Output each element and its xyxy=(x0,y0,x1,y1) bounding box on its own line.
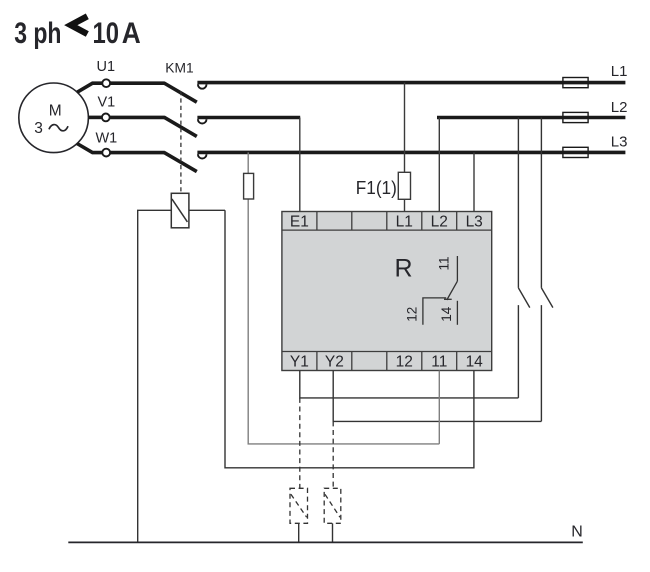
internal contact tip tick xyxy=(444,298,452,300)
svg-text:Y2: Y2 xyxy=(325,353,344,370)
terminal U1 xyxy=(102,79,110,87)
terminal W1 xyxy=(102,149,110,157)
line L2 supply segment xyxy=(437,116,625,120)
terminal V1 xyxy=(102,114,110,122)
contact hook L1 xyxy=(198,84,207,88)
svg-text:A: A xyxy=(122,17,141,50)
thermistor 1 xyxy=(290,488,308,523)
svg-text:L2: L2 xyxy=(611,99,628,116)
wire coil right pin xyxy=(189,209,225,211)
wire Y2 dashed to thermistor 2 xyxy=(332,421,334,488)
line L2 motor segment xyxy=(197,116,300,120)
svg-text:N: N xyxy=(571,524,583,541)
line L3 xyxy=(197,151,625,155)
svg-text:3 ph: 3 ph xyxy=(14,17,61,50)
svg-text:U1: U1 xyxy=(97,59,116,75)
svg-text:L2: L2 xyxy=(431,214,448,231)
wire V1 to contactor xyxy=(110,116,165,120)
wire L3 down to relay L3 xyxy=(473,152,475,211)
internal contact blade xyxy=(447,281,458,300)
fuse F1(1) xyxy=(398,172,410,199)
svg-text:3: 3 xyxy=(34,120,43,137)
wire coil left to N xyxy=(138,210,172,542)
contact hook L2 xyxy=(198,119,207,123)
contactor KM1 pole 3 blade xyxy=(164,152,197,171)
wire Y1 to contact 1 xyxy=(300,371,519,398)
wire L3 to fuse to terminal 11 routing xyxy=(248,152,439,444)
svg-text:11: 11 xyxy=(437,256,452,270)
external contact 1 (from L2 to Y1 wire) xyxy=(517,118,519,398)
fuse on L2 xyxy=(563,112,588,122)
wire U1 to contactor xyxy=(110,81,165,85)
wire Y2 to contact 2 xyxy=(333,371,541,422)
wire L2 end down to E1 xyxy=(299,118,301,212)
svg-text:M: M xyxy=(49,103,62,120)
fuse on wire x248 xyxy=(244,173,254,199)
contactor KM1 linkage dashed xyxy=(180,91,182,193)
line L1 xyxy=(197,81,625,85)
contactor KM1 pole 1 blade xyxy=(164,83,197,102)
wire motor to V1 xyxy=(88,116,102,120)
line N xyxy=(68,541,583,543)
svg-text:L3: L3 xyxy=(611,133,628,150)
wire L2 down to relay L2 xyxy=(438,118,440,212)
internal contact wire 12 xyxy=(423,298,446,325)
wire W1 to contactor xyxy=(110,151,165,155)
wire motor to U1 xyxy=(77,83,102,92)
svg-text:12: 12 xyxy=(405,307,420,322)
svg-text:10: 10 xyxy=(93,17,120,50)
svg-text:L3: L3 xyxy=(466,214,483,231)
wire motor to W1 xyxy=(77,144,102,153)
wire L1 down to relay L1 xyxy=(404,83,406,212)
wire terminal 14 down and left to coil xyxy=(225,210,474,468)
external contact 2 blade xyxy=(541,288,553,308)
internal contact wire 14 xyxy=(456,301,458,325)
svg-text:W1: W1 xyxy=(96,130,118,146)
contactor KM1 pole 2 blade xyxy=(164,117,197,136)
svg-text:F1(1): F1(1) xyxy=(356,177,397,198)
wire terminal 11 down xyxy=(438,371,440,444)
svg-text:11: 11 xyxy=(431,353,447,370)
fuse on L1 xyxy=(563,78,588,88)
contact hook L3 xyxy=(198,154,207,158)
svg-text:E1: E1 xyxy=(290,214,309,231)
svg-text:14: 14 xyxy=(439,306,454,322)
svg-text:R: R xyxy=(394,254,412,282)
svg-text:14: 14 xyxy=(466,353,484,370)
external contact 1 blade xyxy=(518,288,529,308)
wire thermistor 2 to N xyxy=(332,523,334,542)
svg-text:V1: V1 xyxy=(98,95,116,111)
svg-text:KM1: KM1 xyxy=(165,60,193,75)
internal contact wire 11 xyxy=(456,256,458,281)
svg-text:Y1: Y1 xyxy=(290,353,309,370)
external contact 2 (from L2 to Y2 wire) xyxy=(540,118,542,422)
wire Y1 dashed to thermistor 1 xyxy=(299,398,301,488)
svg-text:12: 12 xyxy=(396,353,413,370)
relay R body xyxy=(282,212,492,371)
title 3 ph < 10 A xyxy=(14,16,141,50)
coil KM1 xyxy=(171,193,189,228)
thermistor 2 xyxy=(324,488,341,523)
wire thermistor 1 to N xyxy=(298,523,300,542)
svg-text:L1: L1 xyxy=(611,63,628,80)
motor M1 circle xyxy=(19,83,89,153)
fuse on L3 xyxy=(563,147,588,157)
svg-text:L1: L1 xyxy=(396,214,413,231)
